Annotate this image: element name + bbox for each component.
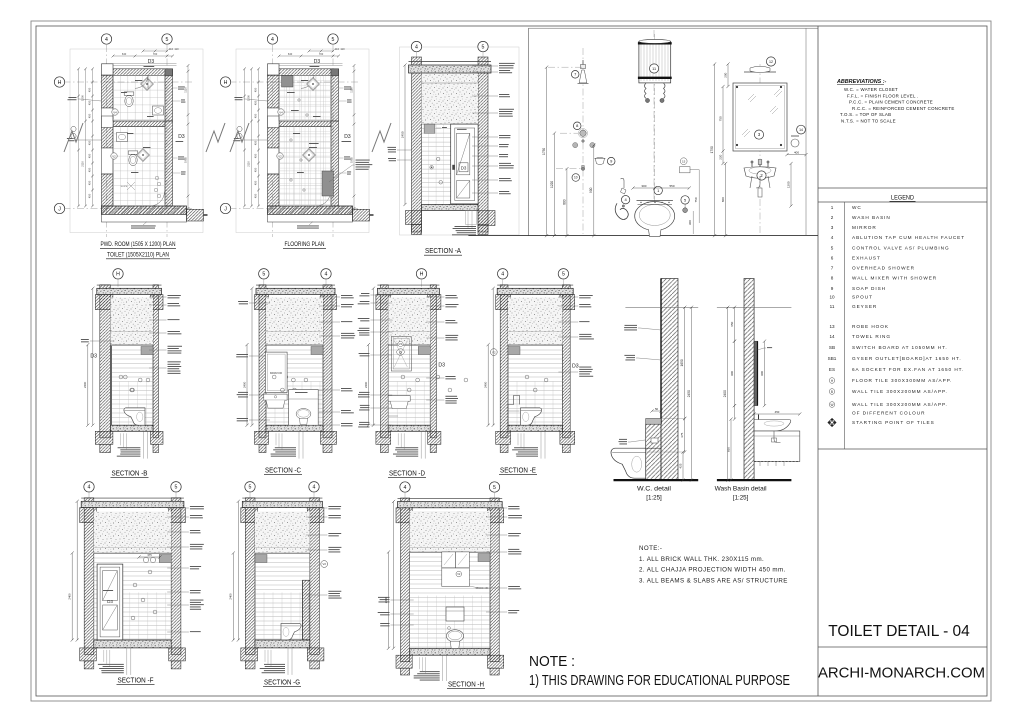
svg-text:MIRROR: MIRROR <box>270 371 283 375</box>
svg-text:4: 4 <box>404 485 407 491</box>
svg-text:3: 3 <box>831 225 834 230</box>
svg-text:2: 2 <box>831 215 834 220</box>
svg-text:450: 450 <box>775 410 780 414</box>
svg-text:W: W <box>830 403 833 407</box>
svg-text:1650: 1650 <box>680 359 684 366</box>
svg-text:2400: 2400 <box>364 381 368 388</box>
svg-text:V4: V4 <box>113 110 117 114</box>
svg-text:5: 5 <box>831 246 834 251</box>
svg-text:14: 14 <box>829 334 835 339</box>
svg-text:2110: 2110 <box>247 161 251 167</box>
svg-text:400: 400 <box>794 150 799 154</box>
svg-text:5: 5 <box>262 272 265 278</box>
svg-text:7: 7 <box>831 266 834 271</box>
svg-text:SECTION -A: SECTION -A <box>425 248 461 255</box>
svg-text:1750: 1750 <box>542 148 546 155</box>
svg-text:13: 13 <box>829 324 835 329</box>
svg-text:H: H <box>116 272 120 278</box>
svg-text:R.C.C. = REINFORCED CEMENT C: R.C.C. = REINFORCED CEMENT CONCRETE <box>852 106 955 111</box>
svg-text:NOTE :: NOTE : <box>529 653 575 670</box>
svg-text:450: 450 <box>254 153 258 158</box>
svg-text:1: 1 <box>831 205 834 210</box>
svg-text:SECTION -B: SECTION -B <box>112 471 148 478</box>
svg-text:OVERHEAD SHOWER: OVERHEAD SHOWER <box>852 266 915 271</box>
svg-text:SB: SB <box>829 345 835 350</box>
svg-text:700: 700 <box>153 52 158 56</box>
svg-text:3. ALL BEAMS & SLABS ARE AS/ S: 3. ALL BEAMS & SLABS ARE AS/ STRUCTURE <box>639 577 788 584</box>
svg-text:W.C. detail: W.C. detail <box>637 486 672 493</box>
svg-text:Wash Basin detail: Wash Basin detail <box>715 486 768 493</box>
svg-text:450: 450 <box>254 193 258 198</box>
svg-text:ABBREVIATIONS :-: ABBREVIATIONS :- <box>836 79 887 85</box>
svg-text:PWD. ROOM (1505 X 1200) PLAN: PWD. ROOM (1505 X 1200) PLAN <box>101 241 176 248</box>
svg-text:450: 450 <box>88 100 92 105</box>
svg-text:CONTROL VALVE AS/ PLUMBING: CONTROL VALVE AS/ PLUMBING <box>852 246 950 251</box>
svg-text:MIRROR: MIRROR <box>852 225 877 230</box>
svg-text:WALL TILE 300X200MM AS/APP.: WALL TILE 300X200MM AS/APP. <box>852 402 948 407</box>
svg-text:9: 9 <box>831 286 834 291</box>
svg-text:T.O.S. = TOP OF SLAB: T.O.S. = TOP OF SLAB <box>840 112 891 117</box>
svg-text:425: 425 <box>678 463 682 468</box>
svg-text:ABLUTION TAP CUM HEALTH FAUCET: ABLUTION TAP CUM HEALTH FAUCET <box>852 235 965 240</box>
svg-text:2450: 2450 <box>400 131 404 138</box>
svg-text:110: 110 <box>335 47 340 51</box>
svg-text:200: 200 <box>723 72 727 77</box>
svg-text:1750: 1750 <box>710 146 714 153</box>
svg-text:SLOPE: SLOPE <box>121 186 128 188</box>
svg-text:SECTION -C: SECTION -C <box>265 468 301 475</box>
svg-text:SB1: SB1 <box>828 356 837 361</box>
svg-text:TOILET DETAIL - 04: TOILET DETAIL - 04 <box>828 623 970 640</box>
svg-text:4: 4 <box>415 45 418 51</box>
svg-text:TOILET (1505X2110) PLAN: TOILET (1505X2110) PLAN <box>107 252 169 259</box>
svg-text:1985: 1985 <box>349 157 353 163</box>
svg-text:1110: 1110 <box>183 87 187 93</box>
svg-text:800: 800 <box>562 199 566 205</box>
svg-text:W.C. = WATER CLOSET: W.C. = WATER CLOSET <box>844 87 898 92</box>
svg-text:2400: 2400 <box>484 381 488 388</box>
svg-text:STARTING POINT OF TILES: STARTING POINT OF TILES <box>852 420 935 425</box>
svg-text:110: 110 <box>174 47 179 51</box>
svg-text:GYSER OUTLET[BOARD]AT 1650 HT.: GYSER OUTLET[BOARD]AT 1650 HT. <box>852 356 962 361</box>
svg-text:[1:25]: [1:25] <box>646 495 662 502</box>
svg-text:WC: WC <box>852 205 862 210</box>
svg-text:P.C.C. = PLAIN CEMENT CONCRE: P.C.C. = PLAIN CEMENT CONCRETE <box>849 100 933 105</box>
svg-text:GEYSER: GEYSER <box>852 304 877 309</box>
svg-text:4: 4 <box>271 37 274 43</box>
svg-text:H: H <box>224 80 228 86</box>
svg-text:4: 4 <box>313 485 316 491</box>
svg-text:2400: 2400 <box>242 381 246 388</box>
svg-text:2400: 2400 <box>384 597 388 604</box>
svg-text:450: 450 <box>88 167 92 172</box>
svg-text:1200: 1200 <box>786 181 790 188</box>
svg-text:2110: 2110 <box>81 161 85 167</box>
svg-text:D3: D3 <box>148 59 155 65</box>
svg-text:V2: V2 <box>112 154 116 158</box>
svg-text:WALL MIXER WITH SHOWER: WALL MIXER WITH SHOWER <box>852 276 937 281</box>
svg-text:2. ALL CHAJJA PROJECTION WIDTH: 2. ALL CHAJJA PROJECTION WIDTH 450 mm. <box>639 567 786 574</box>
svg-text:375: 375 <box>147 553 152 557</box>
svg-text:1. ALL BRICK WALL THK. 230X115: 1. ALL BRICK WALL THK. 230X115 mm. <box>639 556 764 563</box>
svg-text:450: 450 <box>254 87 258 92</box>
svg-text:4: 4 <box>501 272 504 278</box>
svg-text:650: 650 <box>730 321 734 326</box>
svg-text:450: 450 <box>254 113 258 118</box>
svg-text:2400: 2400 <box>229 593 233 600</box>
svg-text:SOAP DISH: SOAP DISH <box>852 286 886 291</box>
svg-text:D3: D3 <box>438 363 445 369</box>
svg-text:110: 110 <box>340 47 345 51</box>
svg-text:220: 220 <box>718 154 722 159</box>
svg-text:5: 5 <box>482 45 485 51</box>
svg-text:1200: 1200 <box>247 95 251 101</box>
svg-text:WALL TILE 300X200MM AS/APP.: WALL TILE 300X200MM AS/APP. <box>852 389 948 394</box>
svg-text:F.F.L. = FINISH FLOOR LEVEL: F.F.L. = FINISH FLOOR LEVEL . <box>847 93 919 98</box>
svg-text:450: 450 <box>254 100 258 105</box>
svg-text:750: 750 <box>718 116 722 121</box>
svg-text:900: 900 <box>589 187 593 193</box>
svg-text:2400: 2400 <box>723 390 727 397</box>
svg-text:V2: V2 <box>278 154 282 158</box>
svg-text:5: 5 <box>332 37 335 43</box>
svg-text:TOWEL RING: TOWEL RING <box>852 334 891 339</box>
svg-text:450: 450 <box>88 193 92 198</box>
svg-text:5: 5 <box>562 272 565 278</box>
svg-text:V2: V2 <box>457 572 461 576</box>
svg-text:2450: 2450 <box>687 390 691 397</box>
svg-text:110: 110 <box>169 47 174 51</box>
svg-text:800: 800 <box>721 197 725 202</box>
svg-text:SECTION -F: SECTION -F <box>118 678 154 685</box>
svg-text:FLOORING PLAN: FLOORING PLAN <box>285 241 325 248</box>
svg-text:WASH BASIN: WASH BASIN <box>852 215 891 220</box>
svg-text:5: 5 <box>175 485 178 491</box>
svg-text:4: 4 <box>325 272 328 278</box>
svg-text:14: 14 <box>799 128 803 132</box>
svg-text:ARCHI-MONARCH.COM: ARCHI-MONARCH.COM <box>818 666 985 682</box>
svg-text:4: 4 <box>88 485 91 491</box>
svg-text:450: 450 <box>254 180 258 185</box>
svg-text:450: 450 <box>88 87 92 92</box>
svg-text:1220: 1220 <box>550 181 554 188</box>
svg-text:D3: D3 <box>178 134 185 140</box>
svg-text:5: 5 <box>493 485 496 491</box>
svg-text:SECTION -H: SECTION -H <box>448 682 484 689</box>
svg-text:SECTION -D: SECTION -D <box>389 471 425 478</box>
svg-text:D3: D3 <box>461 166 467 171</box>
svg-text:2400: 2400 <box>68 593 72 600</box>
svg-text:900: 900 <box>730 371 734 376</box>
svg-text:1200: 1200 <box>81 95 85 101</box>
svg-text:EXHAUST: EXHAUST <box>852 256 881 261</box>
svg-text:5: 5 <box>166 37 169 43</box>
svg-text:12: 12 <box>769 60 773 64</box>
svg-text:11: 11 <box>830 304 835 309</box>
svg-text:V2: V2 <box>322 562 326 566</box>
svg-text:1) THIS DRAWING FOR EDUCATIONA: 1) THIS DRAWING FOR EDUCATIONAL PURPOSE <box>529 672 790 689</box>
svg-text:750: 750 <box>694 197 698 202</box>
svg-text:D3: D3 <box>107 599 113 604</box>
svg-text:6: 6 <box>831 256 834 261</box>
svg-text:SECTION -E: SECTION -E <box>500 468 536 475</box>
svg-text:D3: D3 <box>572 364 579 370</box>
svg-text:8: 8 <box>831 276 834 281</box>
svg-text:850: 850 <box>726 447 730 452</box>
svg-text:ES: ES <box>829 367 835 372</box>
svg-text:B: B <box>831 390 833 394</box>
svg-text:2400: 2400 <box>83 381 87 388</box>
svg-text:450: 450 <box>254 167 258 172</box>
svg-text:FLOOR TILE 300X300MM AS/APP.: FLOOR TILE 300X300MM AS/APP. <box>852 378 952 383</box>
svg-text:450: 450 <box>88 180 92 185</box>
svg-text:V4: V4 <box>279 110 283 114</box>
svg-text:ROBE HOOK: ROBE HOOK <box>852 324 889 329</box>
svg-text:OF DIFFERENT COLOUR: OF DIFFERENT COLOUR <box>852 411 925 416</box>
svg-text:11: 11 <box>652 67 656 71</box>
svg-text:SECTION -G: SECTION -G <box>264 680 300 687</box>
svg-text:10: 10 <box>829 295 835 300</box>
svg-text:D3: D3 <box>314 59 321 65</box>
svg-text:700: 700 <box>319 52 324 56</box>
svg-text:640: 640 <box>288 52 293 56</box>
svg-text:H: H <box>58 80 62 86</box>
svg-text:900: 900 <box>760 371 764 376</box>
svg-text:D3: D3 <box>90 354 97 360</box>
svg-text:LEGEND: LEGEND <box>891 195 914 202</box>
svg-text:SWITCH BOARD AT 1050MM HT.: SWITCH BOARD AT 1050MM HT. <box>852 345 948 350</box>
svg-text:640: 640 <box>122 52 127 56</box>
svg-text:V4: V4 <box>399 342 403 346</box>
svg-text:550: 550 <box>669 184 674 188</box>
svg-text:J: J <box>224 206 227 212</box>
svg-text:450: 450 <box>88 140 92 145</box>
svg-text:50: 50 <box>655 407 659 411</box>
svg-text:MIRROR: MIRROR <box>476 586 489 590</box>
svg-text:10: 10 <box>574 176 578 180</box>
svg-text:1985: 1985 <box>183 157 187 163</box>
svg-text:1110: 1110 <box>349 87 353 93</box>
svg-text:6A SOCKET FOR EX.FAN AT 1650 H: 6A SOCKET FOR EX.FAN AT 1650 HT. <box>852 367 964 372</box>
svg-text:450: 450 <box>254 140 258 145</box>
svg-text:5: 5 <box>249 485 252 491</box>
svg-text:J: J <box>58 206 61 212</box>
svg-text:D3: D3 <box>344 134 351 140</box>
svg-text:15: 15 <box>682 160 686 164</box>
svg-text:450: 450 <box>88 153 92 158</box>
svg-text:4: 4 <box>831 235 834 240</box>
svg-text:300: 300 <box>688 220 692 225</box>
svg-text:450: 450 <box>88 113 92 118</box>
svg-text:NOTE:-: NOTE:- <box>639 545 662 552</box>
svg-text:H: H <box>420 272 424 278</box>
svg-text:[1:25]: [1:25] <box>733 495 749 502</box>
svg-text:V2: V2 <box>492 350 496 354</box>
svg-text:N.T.S. = NOT TO SCALE: N.T.S. = NOT TO SCALE <box>841 119 896 124</box>
svg-text:SPOUT: SPOUT <box>852 295 873 300</box>
svg-text:375: 375 <box>680 432 684 437</box>
svg-text:300: 300 <box>641 184 646 188</box>
svg-text:4: 4 <box>105 37 108 43</box>
